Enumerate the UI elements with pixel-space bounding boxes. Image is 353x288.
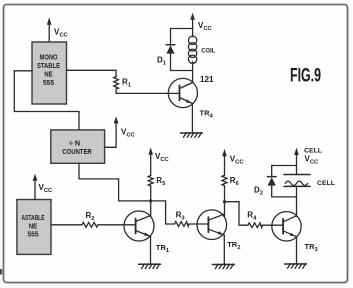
Vcc arrow (monostable) xyxy=(48,23,50,42)
junction TR2 collector node xyxy=(223,200,226,203)
svg-text:NE: NE xyxy=(44,71,53,78)
svg-text:COUNTER: COUNTER xyxy=(62,149,92,156)
TR2 collector line, R6, Vcc xyxy=(224,154,226,175)
transistor TR1 xyxy=(124,211,154,241)
wire R2 to TR1 base xyxy=(98,224,136,226)
text: counter box xyxy=(62,141,92,156)
TR1 emitter and ground xyxy=(150,237,152,265)
transistor TR4 xyxy=(168,78,197,107)
svg-text:ASTABLE: ASTABLE xyxy=(22,215,45,222)
resistor R2 xyxy=(82,222,98,227)
resistor R5 xyxy=(148,176,153,187)
junction TR1 collector node xyxy=(149,199,152,202)
svg-text:COIL: COIL xyxy=(201,48,215,55)
TR3 emitter and ground xyxy=(296,237,298,264)
cell electrodes xyxy=(284,174,310,176)
resistor R3 xyxy=(175,222,190,227)
wire R1 to TR4 base xyxy=(116,89,179,93)
TR4 emitter and ground xyxy=(191,104,193,134)
svg-text:NE: NE xyxy=(29,224,38,231)
wire R4 to TR3 base xyxy=(262,224,283,226)
svg-text:STABLE: STABLE xyxy=(37,63,60,70)
resistor R1 xyxy=(114,77,119,90)
Vcc arrow (counter) xyxy=(105,122,117,147)
wire R3 to TR2 base xyxy=(189,223,208,225)
wire TR1 node to R3 xyxy=(151,201,175,224)
diode D1 branch xyxy=(171,29,193,45)
wire monostable to R1 xyxy=(67,70,117,76)
wire astable to R2 xyxy=(51,224,82,226)
TR4 collector column: Vcc, coil xyxy=(192,18,194,37)
svg-text:CELL: CELL xyxy=(317,180,335,187)
svg-text:555: 555 xyxy=(28,232,39,239)
svg-text:÷ N: ÷ N xyxy=(69,141,80,148)
edge artifact mark xyxy=(0,269,2,275)
transistor TR2 xyxy=(197,210,227,240)
text: astable box xyxy=(22,215,45,239)
TR2 emitter and ground xyxy=(223,235,225,264)
coil L1 xyxy=(188,36,196,44)
svg-text:FIG.9: FIG.9 xyxy=(290,66,321,87)
svg-text:121: 121 xyxy=(200,75,214,84)
svg-text:MONO: MONO xyxy=(40,55,58,62)
monostable NE555 U1 xyxy=(32,42,67,104)
Vcc arrow (astable) xyxy=(34,179,36,200)
text: monostable box xyxy=(37,55,60,87)
wire counter output to TR1 collector node xyxy=(79,163,151,201)
wire monostable to counter (feedback loop) xyxy=(14,71,79,130)
TR1 collector line, R5, Vcc xyxy=(150,153,152,176)
transistor TR3 xyxy=(272,212,301,241)
divide-by-N counter U2 xyxy=(51,130,105,163)
resistor R6 xyxy=(222,175,227,186)
svg-text:CELL: CELL xyxy=(304,147,322,154)
wire TR2 node to R4 xyxy=(225,202,248,226)
astable NE555 U3 xyxy=(17,200,51,255)
diode D2 branch xyxy=(272,166,297,177)
TR3 collector line with cell and D2 xyxy=(296,153,298,175)
cell electrolyte squiggle xyxy=(285,181,307,185)
svg-text:555: 555 xyxy=(43,80,54,87)
resistor R4 xyxy=(248,223,263,228)
